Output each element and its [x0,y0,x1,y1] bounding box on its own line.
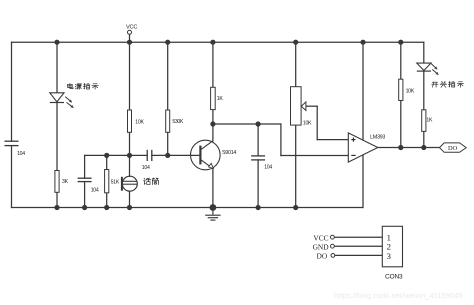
svg-text:3: 3 [387,251,391,261]
svg-text:104: 104 [17,151,25,157]
svg-text:530K: 530K [172,119,183,125]
svg-text:3K: 3K [62,179,69,185]
svg-text:51K: 51K [111,180,120,186]
svg-text:10K: 10K [303,120,312,126]
svg-text:VCC: VCC [126,25,137,31]
svg-text:VCC: VCC [313,233,328,242]
svg-text:GND: GND [313,242,330,251]
svg-text:104: 104 [142,165,150,171]
svg-text:LM393: LM393 [370,134,385,140]
svg-text:DO: DO [448,145,458,152]
svg-text:104: 104 [91,188,99,194]
svg-text:DO: DO [317,252,328,261]
svg-text:CON3: CON3 [385,273,403,280]
svg-text:10K: 10K [135,120,144,126]
svg-text:104: 104 [264,164,272,170]
svg-text:https://blog.csdn.net/weixin_4: https://blog.csdn.net/weixin_41159045 [334,291,463,300]
svg-text:1K: 1K [426,117,433,123]
svg-text:1K: 1K [217,96,224,102]
svg-text:S9014: S9014 [222,150,236,156]
svg-text:10K: 10K [406,89,415,95]
